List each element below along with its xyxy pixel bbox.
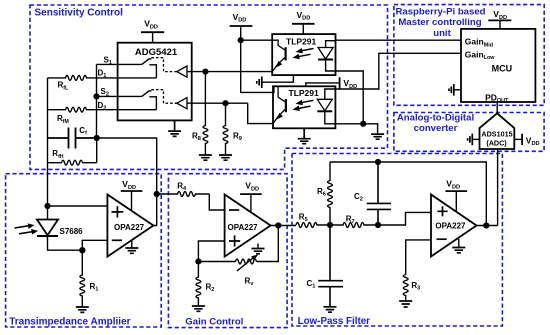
node Vdd/TLP1: [238, 37, 244, 43]
ground at R8: [199, 155, 212, 160]
wire cathode node to opamp1 minus input: [82, 240, 107, 250]
sideways ground left of TLP boxes: [257, 77, 262, 89]
svg-text:converter: converter: [414, 123, 458, 134]
wire TLP291-2 anode to Gain Low pin: [335, 53, 461, 89]
resistor R6: [328, 162, 333, 225]
photodiode S7686: [47, 206, 49, 220]
wire Vdd junction to TLP291-1 collector: [241, 39, 273, 41]
svg-text:Master controlling: Master controlling: [398, 17, 481, 28]
resistor RfM with wire to D2: [48, 107, 157, 112]
switch contact D2: [149, 97, 156, 110]
ADS1015 ADC pentagon: [480, 113, 515, 149]
svg-text:Raspberry-Pi based: Raspberry-Pi based: [395, 7, 485, 18]
minus marker opamp3: [437, 238, 447, 240]
ground right of TLP boxes: [371, 134, 384, 139]
sideways ground at ADC: [472, 138, 479, 140]
LED TLP291-1: [326, 41, 336, 48]
wire Rv node up to plus input: [198, 241, 224, 262]
svg-text:S7686: S7686: [60, 227, 84, 236]
svg-text:MCU: MCU: [492, 64, 512, 74]
op-amp U2 OPA227 TIA: [107, 195, 153, 257]
wire TLP291-1 bottom to sideways ground: [262, 75, 294, 82]
wire Cf node down to RfH: [96, 138, 98, 163]
node C2 bottom: [375, 222, 381, 228]
emitter arrow TLP291-1: [277, 62, 282, 67]
wire opamp1 output up to feedback node: [153, 194, 156, 226]
Vdd supply top of TLP291-1: [292, 23, 315, 25]
wire S2 pin: [97, 95, 142, 97]
wire Cf node right and down to TIA output node: [97, 138, 157, 194]
resistor R5: [296, 223, 330, 228]
node GC output: [275, 222, 281, 228]
switch blade S1: [142, 59, 152, 65]
light arrows TLP291-2: [298, 100, 314, 108]
svg-text:TLP291: TLP291: [289, 88, 320, 98]
op-amp U3 OPA227 gain: [225, 195, 271, 257]
svg-text:Sensitivity Control: Sensitivity Control: [35, 7, 124, 18]
driver triangle 1: [177, 66, 187, 77]
plus marker opamp1: [112, 206, 124, 217]
resistor R1: [80, 250, 85, 307]
variable resistor Rv: [198, 259, 256, 264]
svg-text:OPA227: OPA227: [435, 221, 466, 230]
wire Vdd rail down to TLP291-2 top corner: [241, 40, 274, 92]
Sensitivity Control block border: [30, 5, 388, 169]
node TIA output: [154, 191, 160, 197]
wire feedback from output node down: [257, 226, 279, 262]
ADG5421 box U1: [118, 43, 192, 121]
wire ADC output down to LPF output node: [497, 149, 499, 226]
resistor R8: [203, 72, 208, 155]
wire driver1 output to TLP291-1 emitter: [187, 71, 272, 73]
light arrows TLP291-1: [298, 49, 314, 57]
TLP291 box 1: [272, 34, 335, 75]
svg-text:OPA227: OPA227: [228, 223, 259, 232]
wire top rail: [330, 162, 486, 226]
ground at C1: [324, 307, 337, 312]
ground at ADG5421: [168, 120, 181, 136]
wire opamp2 output: [271, 225, 296, 227]
plus marker opamp3: [437, 206, 447, 216]
svg-text:ADG5421: ADG5421: [135, 47, 178, 58]
Vdd supply bar for ADG5421: [141, 31, 164, 33]
wire R7 node to opamp3 plus input: [378, 212, 431, 225]
node R2/Rv: [195, 258, 201, 264]
op-amp U4 OPA227 LPF: [431, 195, 477, 257]
svg-text:(ADC): (ADC): [486, 138, 507, 147]
switch blade S2: [142, 91, 152, 97]
phototransistor TLP291-1: [285, 47, 287, 60]
wire driver2 jog to TLP291-2 emitter: [248, 103, 273, 123]
minus marker opamp2: [229, 209, 239, 211]
wire Vdd stem MCU: [499, 20, 501, 29]
node Cf junction: [94, 135, 100, 141]
wire R4 to opamp2 minus input: [209, 194, 224, 210]
Raspberry-Pi master controlling unit block border: [394, 5, 544, 106]
svg-text:Analog-to-Digital: Analog-to-Digital: [397, 113, 474, 124]
ground at R3: [399, 301, 412, 307]
wire LED2 cathode exit right: [325, 111, 336, 124]
resistor R3: [403, 275, 408, 302]
Gain Control block border: [168, 174, 287, 328]
wire vertical bus S1/S2 to Cf node: [96, 64, 98, 138]
Vdd supply opamp1: [121, 190, 143, 192]
ground at R1: [76, 307, 89, 312]
wire Vdd stem down to junction: [240, 26, 242, 40]
minus marker opamp1: [112, 239, 122, 241]
node LPF output: [483, 222, 489, 228]
wire Vdd stem to ADG5421: [152, 32, 154, 43]
svg-text:Transimpedance Ampliier: Transimpedance Ampliier: [9, 316, 130, 327]
wire opamp3 output: [477, 225, 498, 227]
svg-text:unit: unit: [433, 28, 451, 39]
resistor R2: [196, 262, 201, 307]
ground below TLP291-2: [298, 128, 311, 143]
capacitor Cf: [48, 128, 97, 149]
node driver2/R9: [222, 100, 228, 106]
plus marker opamp2: [229, 235, 240, 246]
resistor RfH: [48, 160, 97, 165]
svg-text:TLP291: TLP291: [286, 36, 317, 46]
capacitor C1: [318, 225, 343, 307]
node R5/R6/R7/C1: [327, 222, 333, 228]
switch contact D1: [149, 65, 156, 78]
Vdd supply opamp3: [446, 190, 468, 192]
wire opamp3 minus input to R3: [406, 240, 431, 275]
capacitor C2: [367, 162, 391, 225]
wire PD_OUT stem to ADC: [496, 102, 498, 113]
emitter arrow TLP291-2: [278, 114, 283, 119]
Analog-to-Digital converter block border: [394, 113, 544, 152]
wire cathode node to ground: [335, 124, 377, 134]
wire LED1 cathode to right ground rail: [326, 60, 364, 124]
LED TLP291-2: [325, 89, 336, 99]
Vdd supply opamp2: [240, 193, 262, 195]
wire TLP291-1 anode to Gain Mid pin: [336, 39, 462, 41]
sideways ground at MCU: [454, 89, 461, 91]
ground at opamp3: [458, 239, 460, 248]
arrow of Rv: [237, 258, 254, 271]
node photodiode cathode/R1: [79, 247, 85, 253]
resistor R4: [157, 192, 210, 197]
sideways Vdd for TLP291-2: [306, 83, 340, 86]
phototransistor TLP291-2: [285, 99, 287, 112]
Vdd supply MCU: [488, 19, 511, 21]
node driver1/R8: [202, 69, 208, 75]
wire Vdd stem to TLP291-1 top: [302, 24, 304, 34]
MCU box: [461, 29, 535, 102]
dashed control line switch1: [151, 58, 176, 72]
ground at R9: [219, 155, 232, 160]
wire anode node to opamp1 plus input: [48, 205, 108, 207]
resistor R9: [223, 103, 228, 155]
node C2 top rail: [375, 159, 381, 165]
node S2/bus: [93, 93, 99, 99]
TLP291 box 2: [273, 86, 335, 128]
resistor R7: [330, 223, 378, 228]
ground at opamp2: [257, 244, 259, 249]
wire left feedback bus: [47, 78, 49, 206]
driver triangle 2: [177, 98, 187, 109]
Low-Pass Filter block border: [292, 154, 502, 327]
sideways Vdd at ADC: [514, 138, 522, 140]
ground at opamp1: [131, 241, 133, 248]
resistor RfL with wire to D1: [48, 76, 157, 81]
svg-text:Low-Pass Filter: Low-Pass Filter: [298, 316, 371, 327]
Vdd supply left of TLP291-1: [230, 25, 253, 27]
node photodiode anode: [44, 203, 50, 209]
ground at R2: [192, 306, 205, 311]
wire driver2 output: [187, 102, 248, 104]
svg-text:OPA227: OPA227: [114, 223, 145, 232]
svg-text:Gain Control: Gain Control: [185, 316, 243, 327]
light arrows into photodiode: [15, 226, 34, 234]
dashed control line switch2: [151, 90, 176, 104]
Transimpedance Amplifier block border: [6, 174, 162, 327]
node TLP ground junction: [360, 121, 366, 127]
wire S1 pin: [97, 63, 142, 65]
